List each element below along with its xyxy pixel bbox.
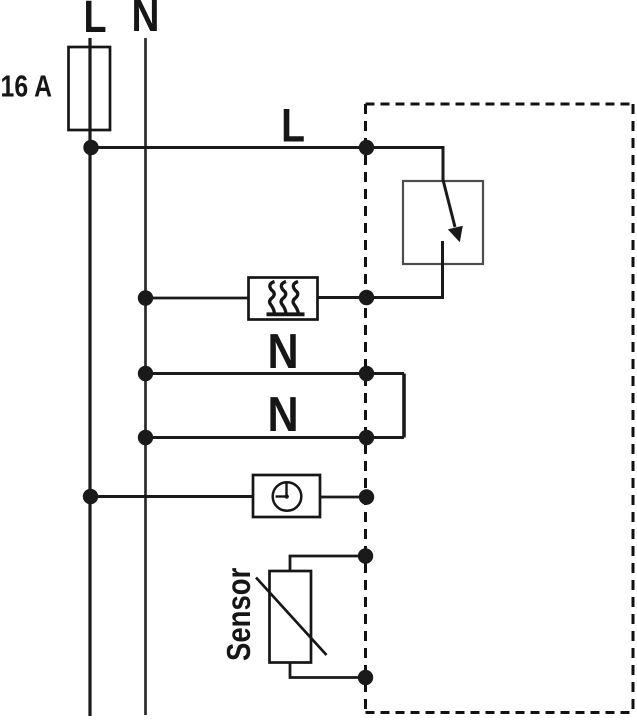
junction dot: L line / timer: [83, 489, 98, 504]
timer clock face: [273, 482, 302, 511]
switch S1 lower contact + wire back to heater node: [318, 241, 443, 298]
wire timer to enclosure: [320, 496, 366, 499]
wire L feed to switch (horizontal + drop into switch box): [90, 148, 443, 182]
junction dot: N line / N terminal 1: [138, 366, 153, 381]
junction dot: N terminal 2 at enclosure: [359, 430, 374, 445]
junction dot: sensor bottom at enclosure: [358, 670, 373, 685]
dashed enclosure left edge: [364, 104, 367, 713]
svg-text:L: L: [281, 100, 305, 152]
heater element heat symbol (3 squiggles over bar): [267, 282, 305, 315]
dashed enclosure (thermostat) top edge: [366, 103, 634, 106]
wire N terminal 1: [146, 372, 405, 375]
junction dot: timer at enclosure: [359, 489, 374, 504]
sensor RT1 box: [270, 571, 312, 663]
sensor RT1 diagonal stroke: [256, 578, 327, 656]
junction dot: N terminal 1 at enclosure: [359, 366, 374, 381]
switch S1 blade with arrowhead: [443, 179, 463, 242]
junction dot: L line / fuse output: [83, 140, 98, 155]
svg-text:16 A: 16 A: [1, 69, 52, 103]
junction dot: sensor top at enclosure: [358, 548, 373, 563]
dashed enclosure bottom edge: [366, 711, 634, 714]
wire N terminal link (right bracket): [402, 374, 406, 438]
wire L vertical line: [88, 38, 91, 716]
switch S1 box: [403, 181, 483, 264]
svg-text:N: N: [267, 323, 298, 378]
svg-text:L: L: [83, 0, 106, 42]
wire N line to heater: [146, 297, 249, 300]
fuse F1 16A: [69, 47, 111, 130]
wire sensor top lead: [290, 556, 366, 571]
wire L to timer: [90, 495, 253, 498]
svg-text:N: N: [267, 386, 298, 441]
wire N terminal 2: [146, 436, 405, 439]
wire N vertical line: [144, 38, 147, 715]
svg-text:Sensor: Sensor: [221, 567, 258, 661]
wire sensor bottom lead: [290, 663, 366, 678]
heater element E1 box: [249, 278, 318, 320]
timer/clock U1 box: [253, 475, 320, 517]
junction dot: heater return at enclosure: [359, 290, 374, 305]
junction dot: N line / heater: [138, 290, 153, 305]
dashed enclosure right edge: [632, 104, 635, 713]
junction dot: L feed at enclosure: [359, 140, 374, 155]
svg-text:N: N: [132, 0, 160, 41]
junction dot: N line / N terminal 2: [138, 430, 153, 445]
